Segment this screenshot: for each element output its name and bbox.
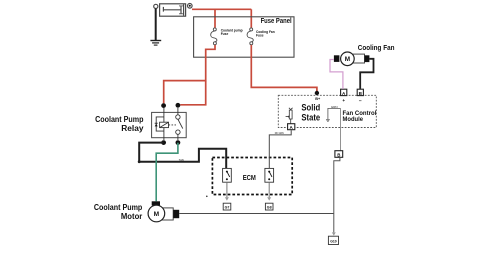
wire red branch to relay switch terminal: [180, 81, 206, 105]
ECM dashed box: [212, 158, 292, 195]
connector A (fan +): [341, 89, 347, 95]
wire relay coil to ECM (tan): [139, 143, 226, 169]
svg-text:Module: Module: [343, 116, 364, 123]
svg-text:Fuse: Fuse: [256, 34, 264, 38]
ground G10: [328, 236, 338, 244]
svg-text:M: M: [154, 211, 160, 218]
wire ECM switch1 to ground G7: [226, 182, 228, 197]
relay flyback diode D1: [155, 124, 158, 127]
wire cooling fan - to connector B (black): [360, 59, 373, 89]
ECM driver switch 2: [265, 168, 274, 182]
svg-text:ECM: ECM: [243, 175, 256, 182]
fuse F1 coolant pump fuse: [211, 28, 217, 45]
relay switch contacts: [169, 108, 183, 140]
wire module output to connector B lower: [340, 108, 342, 150]
ground G8: [265, 203, 273, 210]
wire pump motor to ground splice: [179, 213, 334, 215]
svg-text:B: B: [337, 153, 340, 158]
fuse F2 cooling fan fuse: [247, 28, 253, 45]
svg-text:Coolant Pump: Coolant Pump: [94, 203, 143, 212]
svg-text:Fuse: Fuse: [221, 32, 229, 36]
svg-text:TAN: TAN: [179, 158, 184, 162]
relay K1 coolant pump relay box: [152, 112, 187, 137]
svg-text:Relay: Relay: [121, 124, 144, 133]
wire battery negative to ground: [155, 9, 157, 41]
svg-text:Solid: Solid: [301, 103, 320, 113]
wire DK GRN from A to ECM switch2: [269, 130, 291, 168]
node B+ junction dot: [315, 91, 319, 95]
svg-text:GRN: GRN: [331, 106, 338, 109]
wire relay output to pump motor (green): [156, 143, 178, 202]
svg-text:G10: G10: [330, 239, 337, 243]
stray dot: [206, 196, 208, 198]
relay terminal dots: [161, 103, 166, 108]
wire feed to cooling fan fuse: [250, 9, 252, 27]
wire feed to coolant pump fuse: [214, 9, 216, 27]
wire coolant pump fuse output (red) to relay: [164, 45, 215, 104]
svg-text:M: M: [345, 56, 350, 63]
wire ECM switch2 to ground G8: [268, 182, 270, 197]
ECM driver switch 1: [223, 168, 232, 182]
solid state internal output symbol: [328, 108, 341, 119]
connector B (module output): [335, 151, 343, 158]
battery B1: [154, 4, 192, 17]
fuse panel box: [194, 17, 294, 57]
svg-text:−: −: [359, 98, 362, 104]
node junction at relay ground corner: [138, 160, 141, 163]
connector B (fan -): [357, 89, 363, 95]
svg-text:DK GRN: DK GRN: [275, 131, 284, 135]
svg-text:Cooling Fan: Cooling Fan: [358, 43, 395, 52]
ground G7: [223, 203, 231, 210]
svg-text:Fuse Panel: Fuse Panel: [261, 16, 292, 25]
svg-text:B+: B+: [315, 97, 320, 101]
relay coil with internal wiring: [156, 108, 168, 140]
solid state fan control module dashed box: [278, 95, 376, 127]
wire connector B to ground G10: [334, 157, 340, 232]
solid state internal resistor element: [286, 108, 293, 124]
wire cooling fan + to connector A (pink): [330, 60, 343, 89]
svg-text:G8: G8: [267, 206, 272, 210]
ground: [150, 41, 161, 46]
wire cooling fan fuse output (red) to solid state B+: [251, 45, 317, 92]
svg-text:G7: G7: [225, 206, 230, 210]
svg-text:Motor: Motor: [121, 212, 142, 221]
svg-text:+: +: [342, 98, 345, 103]
connector A (solid state lower): [288, 124, 295, 130]
svg-text:State: State: [301, 113, 320, 123]
wire battery positive feed (red): [192, 8, 251, 10]
svg-text:Coolant Pump: Coolant Pump: [95, 115, 144, 124]
